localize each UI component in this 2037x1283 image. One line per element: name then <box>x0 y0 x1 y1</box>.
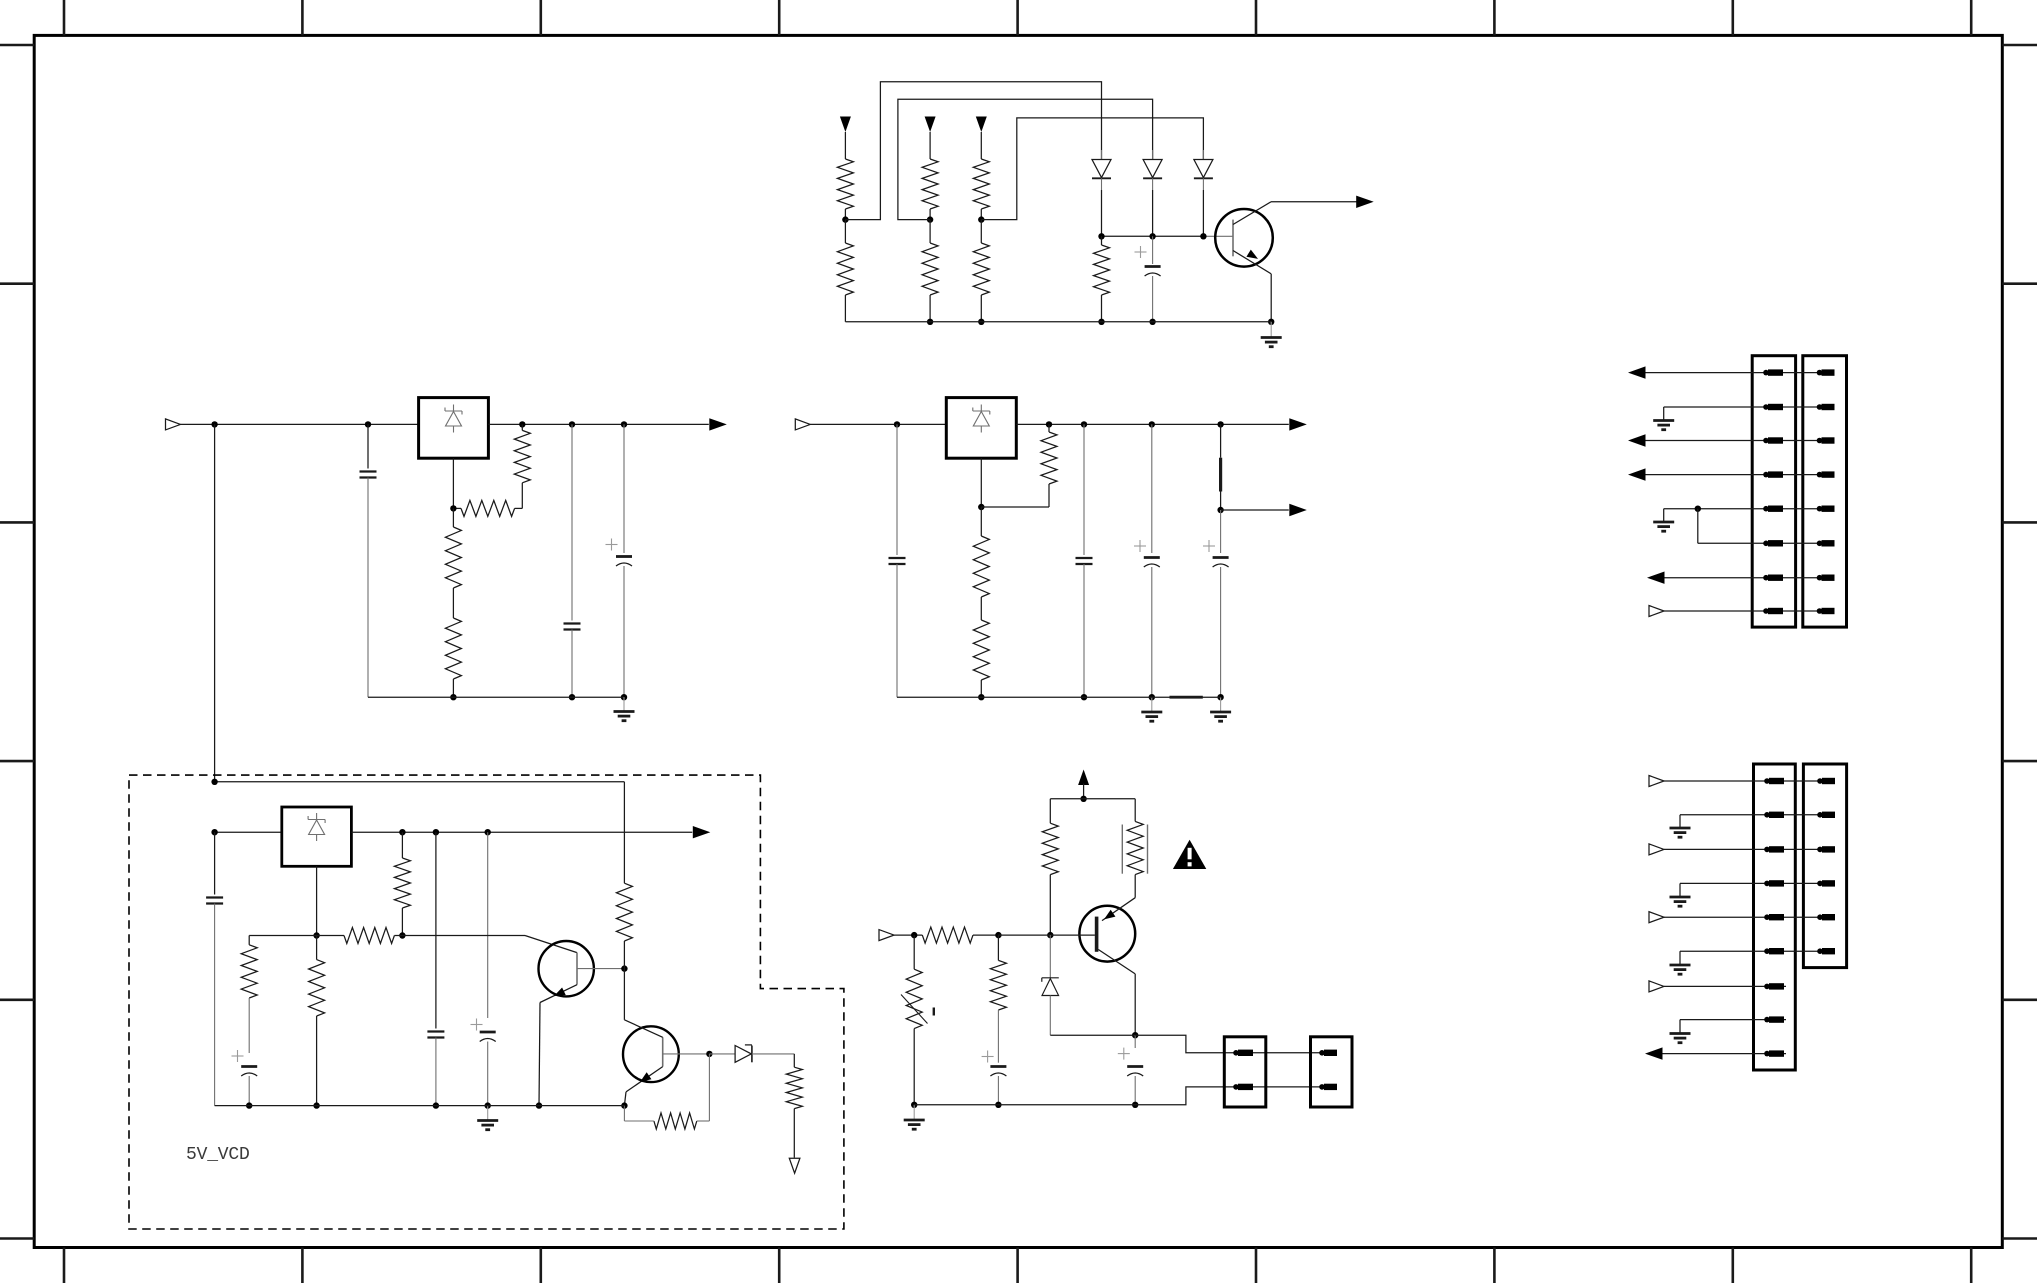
warning symbol <box>1173 840 1206 869</box>
capacitor C14 <box>1134 1035 1136 1048</box>
capacitor C1 <box>1152 236 1154 264</box>
ground K row6 <box>1670 964 1691 967</box>
wire rail G bottom <box>914 1087 1336 1105</box>
ground K row4 <box>1670 896 1691 899</box>
resistor R10 <box>452 508 454 527</box>
output arrow OUT_F <box>693 826 711 838</box>
wire J row5 <box>1664 508 1833 510</box>
input triangle IN_G <box>879 930 894 941</box>
resistor R21 <box>708 1054 710 1121</box>
diode D1 <box>1101 150 1103 160</box>
trimmer RP1 <box>913 935 915 969</box>
input triangle IN_B <box>166 419 181 430</box>
resistor R11 <box>452 588 454 618</box>
wire rail F bottom <box>215 1105 625 1107</box>
diode D4 <box>709 1053 735 1055</box>
wire link1 <box>845 82 1101 220</box>
resistor R1 <box>837 159 853 209</box>
regulator U2 <box>946 398 1016 459</box>
diode D3 <box>1202 150 1204 160</box>
zener diode D5 <box>1049 935 1051 978</box>
resistor R13 <box>980 507 982 536</box>
ferrite bead FB1 <box>1220 424 1222 457</box>
wire K row8 <box>1680 1019 1786 1021</box>
wire J row8 <box>1664 610 1833 612</box>
capacitor C4 <box>623 424 625 553</box>
resistor R17 <box>248 936 250 945</box>
wire K row2 <box>1680 814 1833 816</box>
capacitor C3 <box>571 424 573 620</box>
ground J row2 <box>1653 419 1674 422</box>
wire base Q3 <box>663 1053 710 1055</box>
pins K2 <box>1817 778 1823 784</box>
wire K row1 <box>1664 780 1833 782</box>
resistor R20 <box>793 1054 795 1067</box>
resistor R24 <box>922 927 973 943</box>
wire emitter Q4 <box>1102 898 1135 921</box>
output arrow OUT_B <box>709 418 727 430</box>
output arrow J1-7 <box>1647 572 1665 584</box>
input triangle IN_C <box>795 419 810 430</box>
resistor R15 <box>401 832 403 858</box>
resistor R19 <box>623 782 625 883</box>
capacitor C2 <box>367 424 369 468</box>
output arrow J1-1 <box>1628 366 1646 378</box>
ground G1 <box>913 1105 915 1120</box>
pins H2 <box>1319 1050 1325 1056</box>
wire K row5 <box>1664 916 1833 918</box>
ground C1 <box>1151 697 1153 712</box>
wire rail F in <box>215 831 282 833</box>
capacitor C12 <box>487 832 489 1018</box>
pins J1 <box>1763 370 1769 376</box>
wire rail C <box>1016 423 1289 425</box>
wire J row2 <box>1664 406 1833 408</box>
wire J row1 <box>1646 372 1834 374</box>
node divider2 <box>927 216 933 222</box>
wire out2 <box>1221 509 1289 511</box>
output arrow OUT_A <box>1356 196 1374 208</box>
dashed boundary 5V_VCD block <box>129 775 844 1229</box>
ground F <box>487 1106 489 1121</box>
wire link3 <box>981 118 1203 220</box>
pins H1 <box>1233 1050 1239 1056</box>
resistor R18 <box>316 936 318 960</box>
output arrow OUT_C1 <box>1289 418 1307 430</box>
ferrite bead FB2 <box>1170 696 1203 699</box>
connector J1 <box>1752 356 1795 627</box>
wire left branch <box>249 935 316 937</box>
wire collector Q1 <box>1233 202 1271 225</box>
output arrow J1-3 <box>1628 434 1646 446</box>
wire rail F out <box>351 831 692 833</box>
connector H2 <box>1311 1037 1353 1107</box>
ground J row5 <box>1653 521 1674 524</box>
wire input C <box>810 423 946 425</box>
input triangle K-3 <box>1649 844 1664 855</box>
resistor R22 <box>1049 799 1051 823</box>
resistor R14 <box>980 597 982 620</box>
capacitor C7 <box>1151 424 1153 553</box>
node divider1 <box>842 216 848 222</box>
resistor R3 <box>922 159 938 209</box>
regulator U3 <box>282 807 352 866</box>
power arrow VCC <box>1078 770 1089 786</box>
wire input B <box>181 423 419 425</box>
wire link2 <box>898 99 1153 219</box>
connector K2 <box>1803 764 1846 968</box>
transistor Q1 <box>1215 209 1273 267</box>
wire adj C <box>980 458 982 507</box>
transistor Q2 <box>539 941 594 996</box>
wire rail B <box>488 423 708 425</box>
wire to H1 pin1 <box>1135 1035 1336 1053</box>
capacitor C9 <box>214 832 216 894</box>
wire J row3 <box>1646 440 1834 442</box>
transistor Q4 <box>1079 906 1135 962</box>
input triangle K-5 <box>1649 912 1664 923</box>
output arrow K-9 <box>1645 1047 1663 1059</box>
connector K1 <box>1754 764 1796 1070</box>
wire diode out <box>752 1053 794 1055</box>
wire K row6 <box>1680 950 1833 952</box>
wire base Q2 <box>577 968 624 970</box>
wire collector Q3 <box>624 1020 662 1038</box>
output arrow OUT_C2 <box>1289 504 1307 516</box>
wire rail A <box>845 321 1271 323</box>
input triangle J1-8 <box>1649 606 1664 617</box>
ground K row2 <box>1670 827 1691 830</box>
resistor R8 <box>521 424 523 430</box>
wire mid F <box>402 935 525 937</box>
input triangle K-7 <box>1649 981 1664 992</box>
wire rail C bottom <box>897 696 1221 698</box>
wire rail F top <box>215 781 625 783</box>
wire J row4 <box>1646 474 1834 476</box>
wire K row3 <box>1664 848 1833 850</box>
wire K row7 <box>1664 985 1786 987</box>
wire J row6 <box>1698 542 1833 544</box>
capacitor C10 <box>232 1055 244 1057</box>
wire rail B bottom <box>368 696 624 698</box>
capacitor C13 <box>982 1056 994 1058</box>
wire K row9 <box>1663 1053 1787 1055</box>
wire collector Q4 <box>1098 950 1135 974</box>
capacitor C6 <box>1083 424 1085 555</box>
resistor R12 <box>1048 424 1050 432</box>
input arrow IN2 <box>925 117 936 133</box>
transistor Q3 <box>623 1026 679 1082</box>
resistor R16 <box>317 935 344 937</box>
diode D2 <box>1152 150 1154 160</box>
wire adj B <box>452 458 454 508</box>
svg-text:5V_VCD: 5V_VCD <box>186 1145 250 1165</box>
regulator U1 <box>419 398 489 459</box>
capacitor C5 <box>896 424 898 555</box>
wire J row7 <box>1665 577 1834 579</box>
wire base link <box>998 934 1050 936</box>
resistor R9 <box>461 500 515 516</box>
pins K1 <box>1764 778 1770 784</box>
wire zener link <box>1050 1034 1135 1036</box>
fusible resistor R23 <box>1134 799 1136 822</box>
wire emitter Q1 <box>1233 251 1271 274</box>
capacitor C11 <box>435 832 437 1028</box>
input triangle K-1 <box>1649 776 1664 787</box>
resistor R2 <box>844 220 846 243</box>
resistor R25 <box>997 935 999 960</box>
ground B <box>623 697 625 711</box>
wire branch down <box>214 424 216 781</box>
input arrow IN1 <box>840 117 851 133</box>
node divider3 <box>978 216 984 222</box>
ground K row8 <box>1670 1032 1691 1035</box>
wire base Q4 <box>1050 934 1095 936</box>
wire adj F <box>316 866 318 935</box>
node out2 <box>1217 507 1223 513</box>
resistor R7 <box>1101 236 1103 245</box>
wire emitter Q2 <box>540 985 577 1003</box>
resistor R4 <box>929 220 931 243</box>
connector H1 <box>1224 1037 1266 1107</box>
capacitor C8 <box>1220 510 1222 553</box>
wire node row <box>1102 235 1204 237</box>
resistor R6 <box>980 220 982 243</box>
pins J2 <box>1817 370 1823 376</box>
wire rail G <box>1050 798 1135 800</box>
input arrow IN3 <box>976 117 987 133</box>
resistor R5 <box>973 159 989 209</box>
output arrow J1-4 <box>1628 468 1646 480</box>
connector J2 <box>1803 356 1847 627</box>
net triangle OUT_F2 <box>789 1158 800 1173</box>
wire input G <box>894 934 922 936</box>
wire K row4 <box>1680 882 1833 884</box>
wire emitter Q3 <box>626 1067 663 1092</box>
ground C2 <box>1220 697 1222 712</box>
ground A <box>1270 322 1272 338</box>
